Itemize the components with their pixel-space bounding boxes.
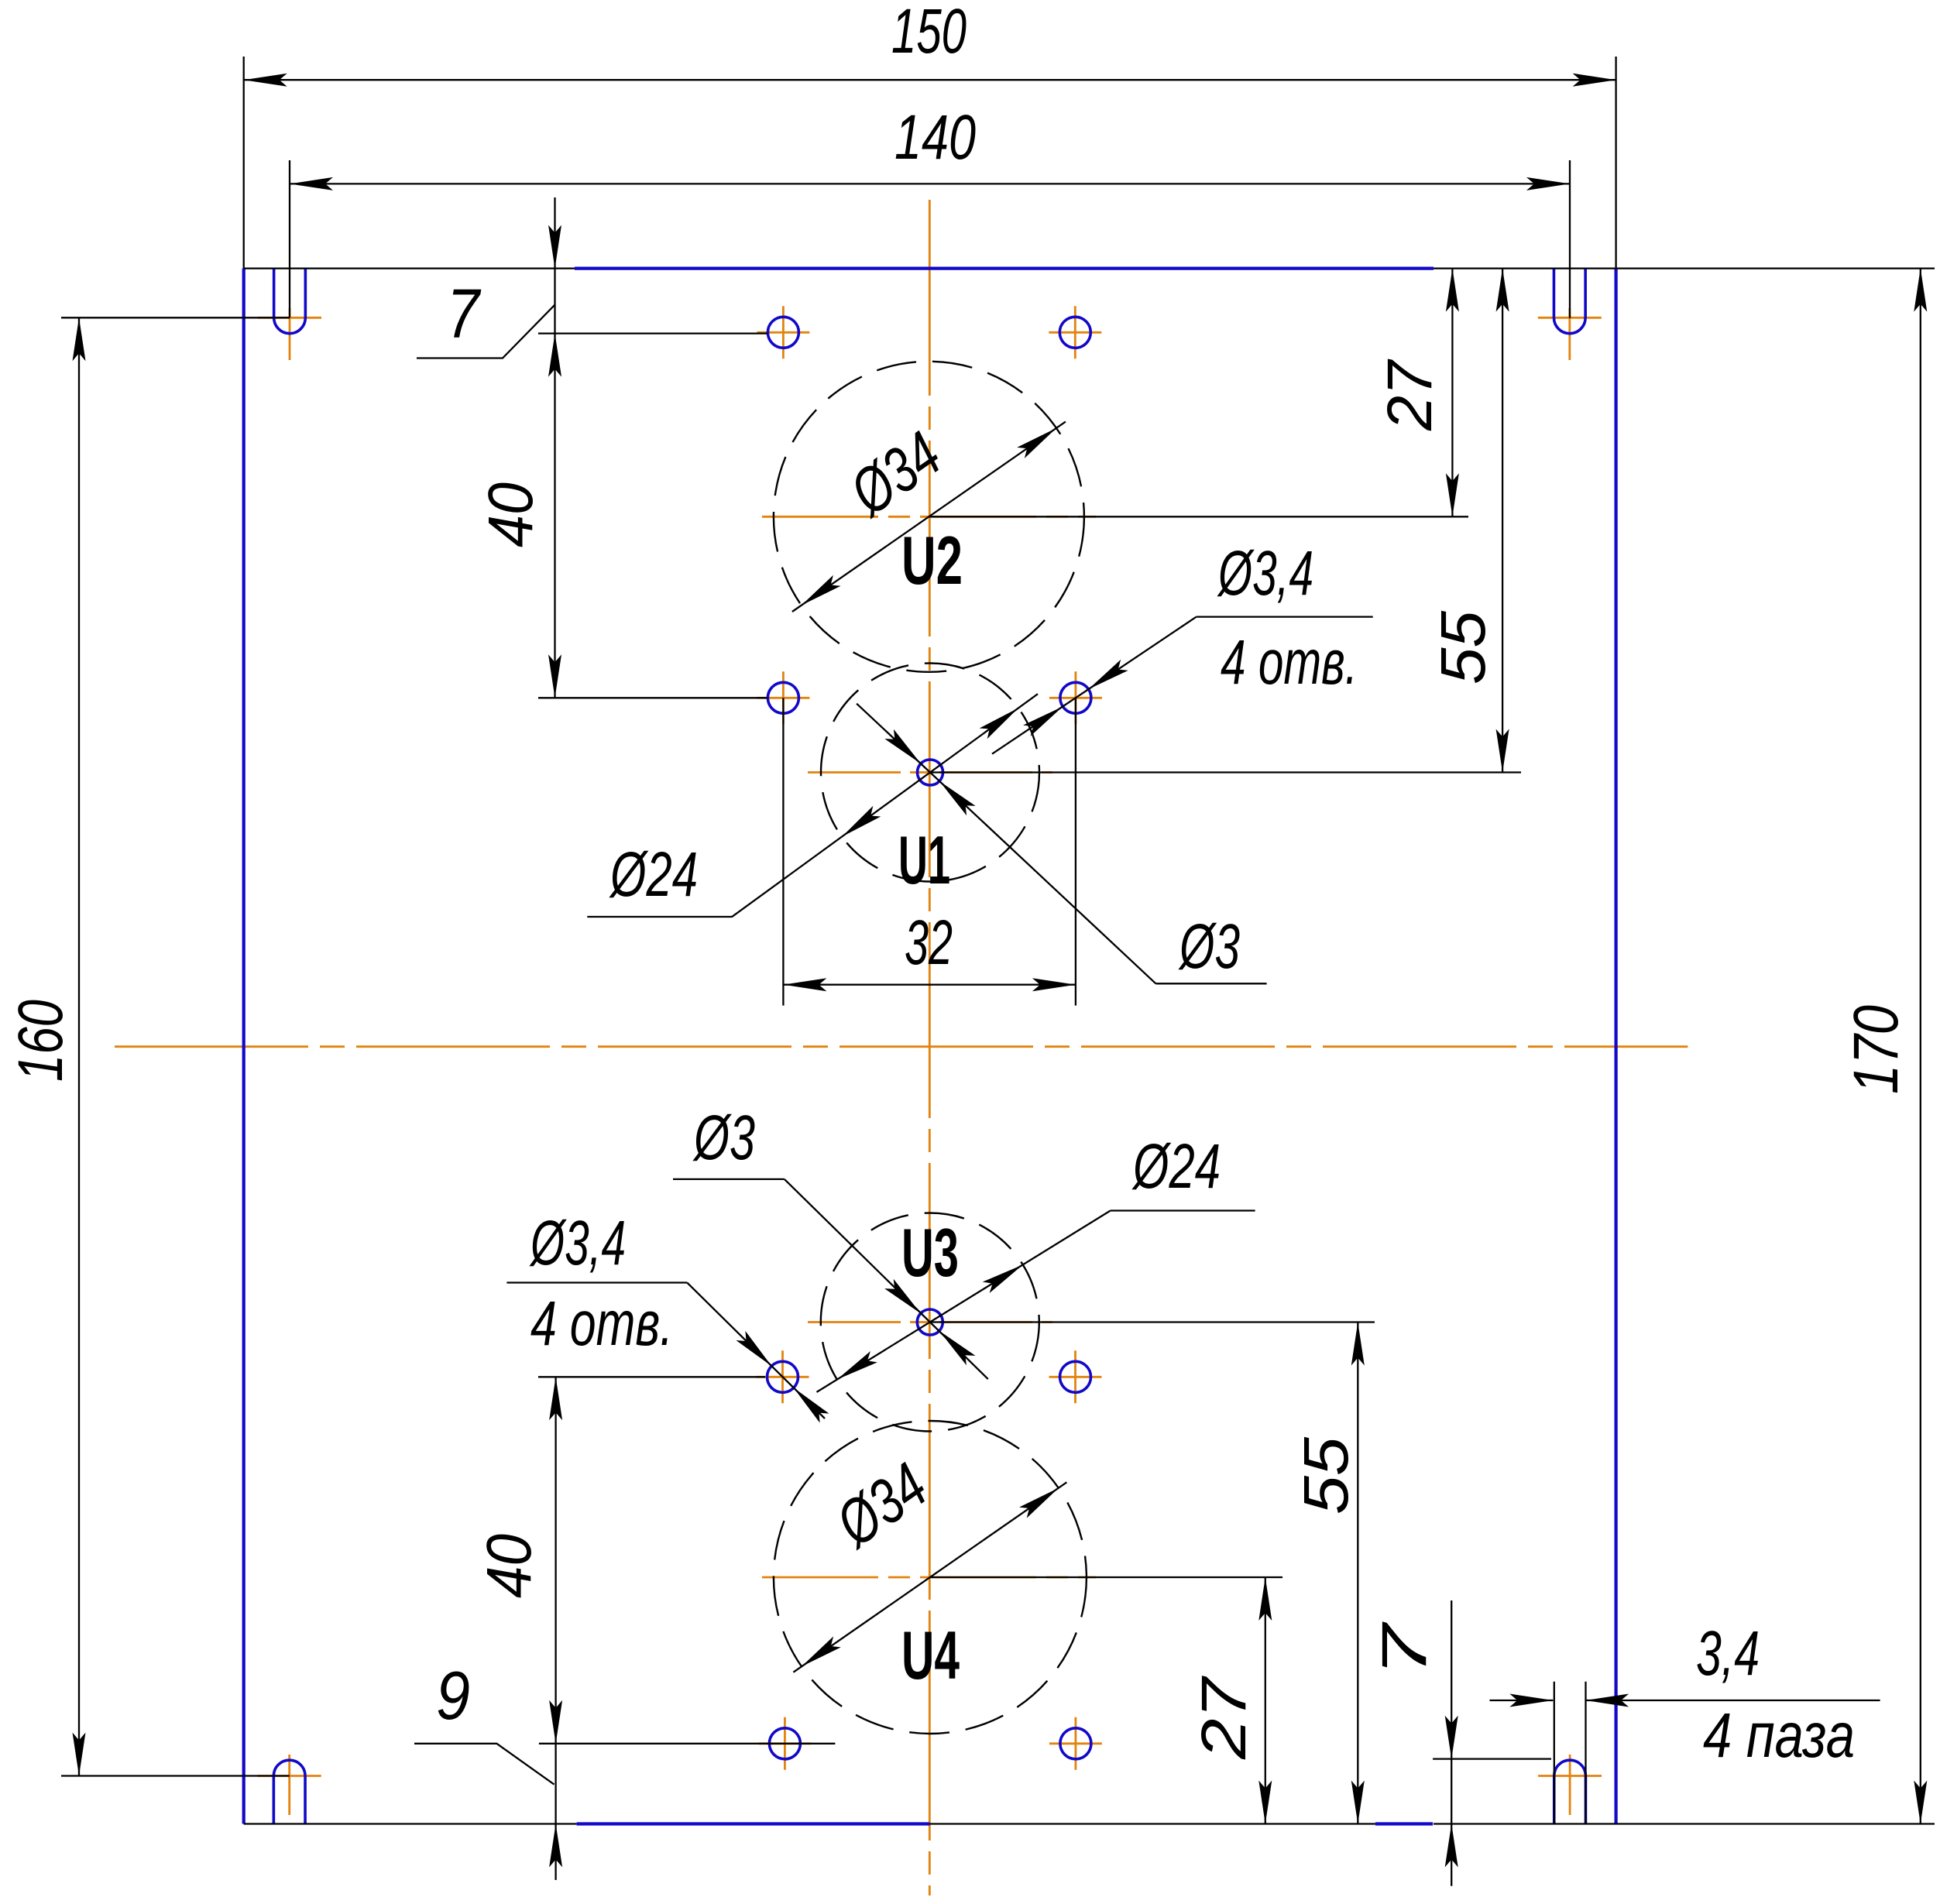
svg-text:140: 140: [894, 102, 976, 173]
dim 55 top line: [1502, 269, 1503, 773]
dim 9 leader: [414, 1744, 555, 1785]
U3 d24 leader: [1111, 1209, 1255, 1211]
slot TL centerlines: [258, 317, 321, 319]
U2 circle d34: [774, 362, 1084, 672]
dim 27 top line: [1451, 269, 1453, 517]
hole 3 centerlines: [757, 697, 809, 699]
dim 40 top / 7 top line: [554, 197, 555, 698]
hole 3 (d3.4): [767, 682, 798, 713]
svg-text:4 паза: 4 паза: [1703, 1700, 1855, 1771]
top edge black overlay left: [244, 267, 575, 269]
svg-text:150: 150: [891, 0, 967, 67]
svg-text:160: 160: [5, 1000, 76, 1082]
U4 d34 dimension line: [793, 1482, 1066, 1672]
svg-text:Ø24: Ø24: [609, 839, 698, 910]
dim 150 line: [244, 79, 1616, 81]
U1 d24 dimension line: [732, 694, 1038, 917]
svg-text:55: 55: [1428, 611, 1499, 684]
U4 horizontal centerline: [762, 1576, 1096, 1579]
dim 32 extension lines: [782, 698, 784, 1005]
dim 7 bottom line lower part: [1451, 1824, 1452, 1886]
dim 55 bottom extension line: [930, 1321, 1375, 1323]
hole 8 (d3.4): [1060, 1728, 1091, 1759]
hole 5 centerlines: [757, 1376, 809, 1378]
hole 4 (d3.4): [1060, 682, 1091, 713]
dim 170 line: [1920, 269, 1921, 1824]
svg-text:7: 7: [1369, 1621, 1440, 1677]
U2 d34 dimension line: [792, 422, 1066, 612]
svg-text:U4: U4: [901, 1617, 960, 1693]
svg-text:4 отв.: 4 отв.: [1221, 627, 1358, 698]
hole 1 (d3.4): [767, 317, 798, 348]
dim 40 bottom / 9 line: [555, 1377, 556, 1880]
slot bottom-left: [273, 1760, 305, 1823]
U1 d3 leader: [1155, 983, 1266, 984]
svg-text:27: 27: [1375, 359, 1445, 431]
slot TR centerlines: [1538, 317, 1602, 319]
svg-text:32: 32: [905, 907, 953, 978]
bottom edge extension line right: [1434, 1823, 1935, 1824]
dim 3,4 left tail: [1490, 1700, 1554, 1701]
dim 27 bottom line: [1265, 1577, 1266, 1824]
svg-text:Ø3: Ø3: [1178, 911, 1240, 982]
svg-text:4 отв.: 4 отв.: [530, 1288, 673, 1359]
U3 circle d24: [821, 1213, 1039, 1432]
U2 horizontal centerline: [762, 516, 1096, 518]
svg-text:Ø3: Ø3: [692, 1103, 755, 1173]
svg-text:40: 40: [476, 482, 546, 547]
hole 2 centerlines: [1049, 331, 1101, 334]
svg-text:Ø24: Ø24: [1131, 1131, 1221, 1202]
dim 32 line: [783, 984, 1076, 986]
hole 5 (d3.4): [767, 1361, 798, 1392]
dim 140 line: [290, 183, 1570, 184]
slot BL centerlines: [258, 1775, 321, 1777]
slot top-left: [274, 269, 306, 334]
top edge extension line right: [1434, 267, 1935, 269]
svg-text:Ø3,4: Ø3,4: [1217, 538, 1313, 609]
U3 d24 dimension line: [817, 1211, 1111, 1392]
dim 55 top extension line: [930, 771, 1521, 773]
hole row2 extension line: [538, 697, 767, 698]
svg-text:40: 40: [474, 1534, 544, 1598]
hole 2 (d3.4): [1059, 317, 1090, 348]
hole 4 centerlines: [1049, 697, 1102, 699]
plate left edge: [242, 269, 246, 1824]
plate top edge (blue part): [575, 267, 1434, 270]
hole row1 extension line: [538, 332, 767, 334]
dim 27 bottom extension line: [930, 1576, 1282, 1578]
dim 140 extension lines: [289, 160, 290, 317]
bottom edge black overlay left: [244, 1823, 577, 1824]
U1 horizontal centerline: [808, 771, 1052, 774]
U1 d3 dimension line: [857, 704, 1155, 984]
slot top-right: [1554, 269, 1585, 334]
hole 6 centerlines: [1049, 1376, 1102, 1378]
U4 circle d34: [774, 1421, 1087, 1734]
dim 3,4 extension lines: [1554, 1682, 1555, 1824]
U3 d3 leader: [673, 1178, 785, 1180]
dim 7 bottom line upper part: [1451, 1600, 1452, 1759]
hole 8 centerlines: [1049, 1742, 1102, 1744]
svg-text:9: 9: [436, 1657, 470, 1734]
hole row3 extension line: [538, 1376, 765, 1377]
svg-text:Ø3,4: Ø3,4: [529, 1208, 626, 1278]
hole 7 centerlines: [758, 1742, 811, 1744]
U1 center hole (d3): [918, 760, 943, 785]
svg-text:U2: U2: [901, 522, 963, 599]
dim 27 top extension line: [929, 516, 1468, 517]
plate right edge: [1615, 269, 1618, 1824]
hole row4 extension line: [539, 1743, 836, 1744]
hole 6 (d3.4): [1060, 1361, 1091, 1392]
svg-text:27: 27: [1189, 1675, 1259, 1760]
slot top reference line: [1433, 1758, 1551, 1759]
dim 55 bottom line: [1357, 1323, 1358, 1824]
hole 7 (d3.4): [769, 1728, 800, 1759]
svg-text:U3: U3: [901, 1214, 959, 1291]
svg-text:7: 7: [447, 276, 481, 353]
U3 horizontal centerline: [808, 1321, 1052, 1323]
plate horizontal centerline: [115, 1045, 1688, 1048]
dim 3,4 right line / leader: [1585, 1700, 1880, 1701]
svg-text:U1: U1: [898, 822, 950, 898]
plate vertical centerline: [929, 200, 931, 1895]
d3,4 top dimension line: [992, 617, 1197, 754]
hole 1 centerlines: [757, 331, 809, 334]
d3,4 top leader: [1197, 616, 1373, 617]
dim 150 extension lines: [243, 57, 245, 269]
d3,4 bottom leader: [506, 1281, 687, 1283]
dim 7 top leader: [417, 305, 555, 359]
plate bottom edge (blue part 2): [1375, 1822, 1433, 1825]
plate bottom edge (blue part 1): [577, 1822, 930, 1825]
svg-text:55: 55: [1291, 1437, 1361, 1515]
U3 center hole (d3): [917, 1309, 943, 1335]
d3,4 bottom dimension line: [687, 1283, 825, 1419]
dim 160 line: [78, 317, 80, 1775]
U1 circle d24: [821, 664, 1039, 882]
bottom edge black overlay middle: [929, 1823, 1375, 1824]
dim 160 extension lines: [61, 317, 290, 318]
svg-text:170: 170: [1841, 1005, 1911, 1094]
U3 d3 dimension line: [785, 1179, 988, 1379]
slot BR centerlines: [1538, 1775, 1602, 1777]
U1 d24 leader: [587, 916, 732, 918]
svg-text:3,4: 3,4: [1696, 1618, 1760, 1689]
slot bottom-right: [1554, 1760, 1586, 1823]
